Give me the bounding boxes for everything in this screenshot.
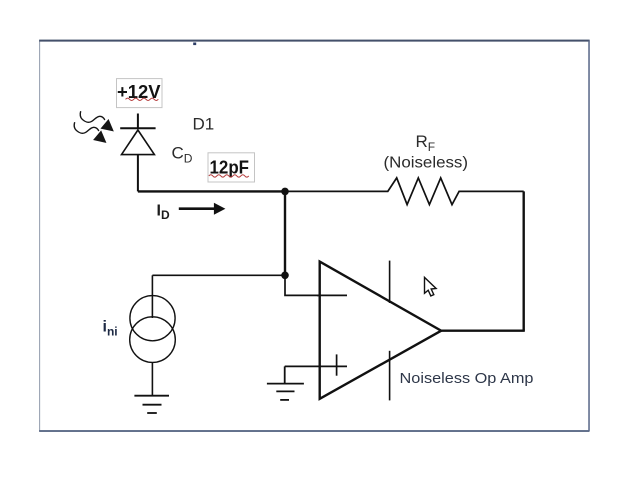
light arrow 1 (upper squiggle)	[80, 111, 113, 131]
node A junction dot	[281, 188, 289, 196]
op-amp U1 triangle	[320, 262, 442, 399]
output wire	[441, 330, 525, 332]
light arrow 2 (lower squiggle)	[74, 122, 105, 142]
photodiode D1 cathode stub wire	[137, 114, 139, 129]
op-amp positive rail line	[389, 261, 391, 303]
+12V label box	[117, 79, 163, 108]
wire node B to inverting input, with minus sign	[285, 275, 347, 295]
ground under ini	[134, 396, 169, 413]
resistor RF zigzag	[285, 178, 524, 205]
wire photodiode to node A	[138, 190, 285, 192]
node B junction dot	[281, 272, 289, 280]
current source ini top lead	[151, 275, 153, 318]
current source ini wire to node B	[152, 274, 285, 276]
slide border frame	[40, 40, 590, 431]
svg-text:(Noiseless): (Noiseless)	[384, 154, 469, 171]
bottom border accent line	[39, 430, 589, 432]
mouse cursor	[425, 277, 437, 296]
anode wire down from photodiode	[137, 155, 139, 192]
top border accent line	[39, 40, 589, 42]
svg-text:D1: D1	[193, 114, 215, 133]
12pF label box	[208, 153, 255, 182]
right border accent line	[588, 41, 590, 431]
ID direction arrow	[179, 203, 226, 215]
top-center page mark	[193, 43, 196, 46]
ground stub at non-inverting input	[284, 366, 286, 383]
op-amp negative rail line	[389, 351, 391, 401]
plus sign vertical stroke	[336, 354, 338, 375]
feedback right vertical wire	[523, 191, 525, 330]
svg-text:+12V: +12V	[117, 81, 161, 102]
current source ini upper circle	[130, 296, 175, 341]
current source ini bottom lead	[151, 362, 153, 395]
wire node A to node B	[284, 191, 286, 275]
ground at non-inverting input	[267, 384, 304, 400]
svg-text:Noiseless Op Amp: Noiseless Op Amp	[400, 370, 534, 387]
current source ini lower circle	[130, 317, 176, 363]
photodiode D1 cathode bar	[120, 127, 155, 129]
minus sign segment (inside op-amp, re-draw over fill)	[317, 294, 347, 296]
photodiode D1 triangle	[122, 130, 155, 155]
wire ground to non-inverting input, with plus sign	[285, 365, 347, 367]
